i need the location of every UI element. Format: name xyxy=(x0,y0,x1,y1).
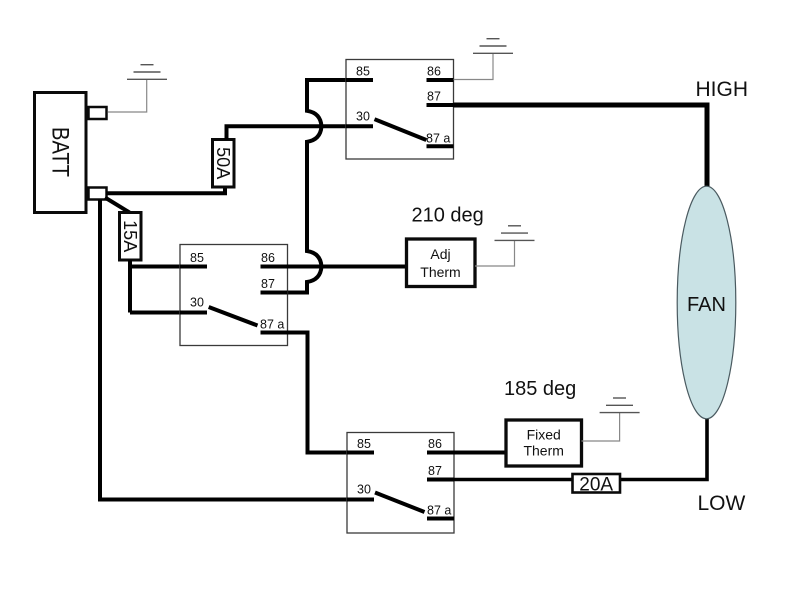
svg-text:30: 30 xyxy=(190,296,204,310)
thermostat Fixed Therm xyxy=(506,420,582,466)
battery positive terminal xyxy=(89,107,107,119)
fuse 15A xyxy=(120,213,142,261)
svg-text:30: 30 xyxy=(356,109,370,123)
wire relay1 pin86 to ground xyxy=(454,53,494,79)
relay U1 pin 86 xyxy=(427,65,454,81)
wire relay3 pin87 to FAN (LOW) xyxy=(454,419,707,480)
wire relay2 pin86 to Adj Therm xyxy=(288,265,408,269)
svg-text:85: 85 xyxy=(357,437,371,451)
relay U3 box xyxy=(347,433,454,534)
svg-text:87 a: 87 a xyxy=(260,318,284,332)
fuse 20A xyxy=(573,474,621,496)
svg-text:Therm: Therm xyxy=(523,443,563,459)
fuse 50A xyxy=(213,140,235,188)
svg-text:20A: 20A xyxy=(579,475,613,496)
ground (Adj Therm) xyxy=(495,226,535,241)
svg-text:87: 87 xyxy=(261,277,275,291)
relay U2 box xyxy=(180,245,288,346)
relay U2 pin 86 xyxy=(261,251,288,267)
svg-text:210 deg: 210 deg xyxy=(412,205,484,227)
svg-text:85: 85 xyxy=(190,251,204,265)
svg-text:HIGH: HIGH xyxy=(696,78,749,101)
relay U1 pin 30 xyxy=(346,109,373,126)
svg-text:Adj: Adj xyxy=(430,246,450,262)
svg-text:87 a: 87 a xyxy=(427,504,451,518)
wire Adj Therm to ground xyxy=(475,240,515,266)
svg-text:50A: 50A xyxy=(213,147,233,179)
relay U2 switch arm xyxy=(209,307,258,326)
relay U3 pin 87 xyxy=(427,464,454,480)
ground (relay1 86) xyxy=(473,39,513,54)
wire battery to 15A fuse (diagonal) xyxy=(105,198,130,213)
svg-text:86: 86 xyxy=(427,65,441,79)
relay U3 pin 87a xyxy=(427,504,454,519)
ground (battery) xyxy=(127,65,167,80)
wire battery top terminal to ground xyxy=(108,79,147,112)
wire 15A fuse to relay2 pin85 and pin30 xyxy=(130,260,181,313)
battery negative terminal xyxy=(89,188,107,200)
wire relay2 pin87a down to relay3 pin85 xyxy=(286,333,348,453)
svg-text:87: 87 xyxy=(428,464,442,478)
relay U3 switch arm xyxy=(375,493,425,513)
svg-text:185 deg: 185 deg xyxy=(504,378,576,400)
wire relay3 pin86 to Fixed Therm xyxy=(454,451,507,455)
svg-text:87 a: 87 a xyxy=(426,132,450,146)
relay U3 pin 85 xyxy=(347,437,374,453)
wire Fixed Therm to ground xyxy=(582,413,620,441)
relay U1 switch arm xyxy=(375,119,427,140)
ground (Fixed Therm) xyxy=(600,398,640,413)
svg-text:86: 86 xyxy=(261,251,275,265)
relay U2 pin 87 xyxy=(261,277,288,293)
relay U2 pin 87a xyxy=(260,318,288,333)
FAN motor ellipse xyxy=(677,186,736,419)
svg-text:85: 85 xyxy=(356,65,370,79)
wire 50A fuse to relay1 pin30 xyxy=(227,126,348,139)
svg-text:FAN: FAN xyxy=(687,294,726,316)
svg-text:87: 87 xyxy=(427,90,441,104)
relay U1 box xyxy=(346,60,454,160)
relay U3 pin 86 xyxy=(427,437,454,453)
battery BATT box xyxy=(35,93,87,213)
relay U1 pin 85 xyxy=(346,65,373,81)
relay U2 pin 30 xyxy=(180,296,207,313)
svg-text:30: 30 xyxy=(357,483,371,497)
svg-text:Therm: Therm xyxy=(420,264,460,280)
svg-text:86: 86 xyxy=(428,437,442,451)
wire battery down to relay3 pin30 xyxy=(100,200,348,500)
relay U3 pin 30 xyxy=(347,483,374,500)
svg-text:15A: 15A xyxy=(120,220,140,252)
wire relay1 pin85 down to relay2 pin87 (with hops) xyxy=(286,80,347,293)
wire battery bottom terminal to 50A fuse xyxy=(106,188,225,193)
svg-text:BATT: BATT xyxy=(47,127,74,177)
svg-text:Fixed: Fixed xyxy=(527,427,561,443)
relay U1 pin 87 xyxy=(427,90,454,106)
svg-text:LOW: LOW xyxy=(698,492,746,515)
relay U1 pin 87a xyxy=(426,132,454,147)
relay U2 pin 85 xyxy=(180,251,207,267)
thermostat Adj Therm xyxy=(407,239,476,287)
wire relay1 pin87 to FAN (HIGH) xyxy=(454,105,708,187)
